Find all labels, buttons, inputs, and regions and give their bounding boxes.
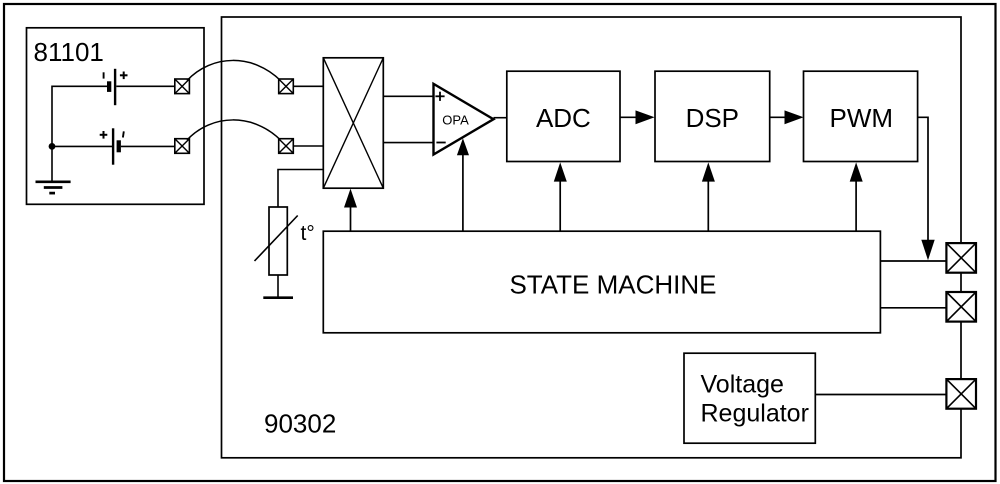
junction node — [49, 143, 56, 150]
svg-text:PWM: PWM — [830, 103, 894, 133]
terminal X5 (right top) — [946, 243, 976, 273]
wire terminal X4 to mux — [293, 145, 323, 147]
wire thermistor to common — [277, 275, 279, 298]
terminal X1 (81101 top) — [175, 79, 190, 94]
common bar — [263, 296, 293, 299]
wire mux to opamp + — [383, 95, 433, 97]
wire mux to opamp - — [383, 142, 433, 144]
arrow SM to DSP — [702, 162, 715, 181]
wire PWM output — [918, 117, 928, 241]
battery B2 — [100, 128, 124, 164]
voltage regulator — [684, 353, 815, 443]
wire SM to mux — [350, 206, 352, 231]
ground — [36, 182, 71, 193]
wire SM to PWM — [855, 181, 857, 232]
svg-text:ADC: ADC — [536, 103, 591, 133]
box 81101 — [27, 28, 205, 205]
svg-text:Regulator: Regulator — [701, 399, 809, 427]
wire top battery left — [52, 86, 107, 146]
terminal X3 (90302 left top) — [279, 79, 294, 94]
svg-text:DSP: DSP — [686, 103, 739, 133]
wire DSP to PWM — [770, 116, 786, 118]
multiplexer — [323, 58, 383, 188]
wire mux to thermistor — [278, 170, 323, 208]
terminal X7 (right bottom) — [946, 379, 976, 409]
wire top battery right — [116, 85, 175, 87]
wire SM to opamp — [462, 155, 464, 231]
terminal X6 (right middle) — [946, 292, 976, 322]
svg-text:STATE MACHINE: STATE MACHINE — [509, 269, 716, 299]
STATE MACHINE — [323, 231, 880, 333]
ADC — [507, 71, 620, 161]
wire SM to terminal right 1 — [880, 260, 946, 262]
arrow SM to mux — [344, 189, 357, 208]
arrow PWM down — [921, 240, 934, 260]
wire SM to terminal right 2 — [880, 307, 946, 309]
wire voltage regulator to terminal X7 — [815, 394, 946, 396]
arrow ADC to DSP — [636, 110, 655, 124]
arrow DSP to PWM — [785, 110, 804, 124]
arrow SM to opamp — [457, 138, 469, 155]
svg-text:t°: t° — [301, 222, 315, 245]
DSP — [655, 71, 770, 161]
wire bottom battery left — [52, 145, 112, 147]
battery B1 — [104, 69, 128, 105]
svg-text:Voltage: Voltage — [701, 370, 784, 398]
wire opamp to ADC — [494, 117, 507, 119]
wire SM to DSP — [707, 181, 709, 232]
svg-text:90302: 90302 — [264, 408, 336, 438]
wire ADC to DSP — [620, 116, 637, 118]
wire SM to ADC — [559, 181, 561, 232]
arrow SM to PWM — [850, 162, 863, 181]
terminal X4 (90302 left bottom) — [279, 139, 294, 154]
thermistor RT — [255, 207, 298, 275]
PWM — [804, 71, 918, 161]
wire terminal X3 to mux — [293, 85, 323, 87]
op-amp U1 — [434, 84, 494, 155]
wire (curve bottom) — [187, 120, 281, 140]
wire to ground — [51, 146, 53, 181]
svg-text:81101: 81101 — [34, 37, 104, 67]
wire (curve top) — [187, 60, 281, 80]
box 90302 — [222, 17, 962, 458]
svg-text:OPA: OPA — [442, 113, 469, 128]
wire bottom battery right — [121, 145, 175, 147]
terminal X2 (81101 bottom) — [175, 139, 190, 154]
arrow SM to ADC — [554, 162, 567, 181]
